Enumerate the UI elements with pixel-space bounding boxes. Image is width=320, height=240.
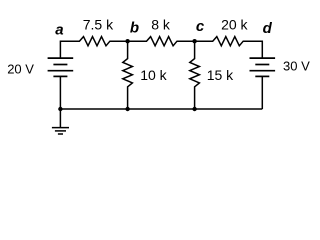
svg-text:b: b (130, 20, 139, 37)
svg-text:15 k: 15 k (207, 67, 234, 83)
svg-text:10 k: 10 k (140, 67, 167, 83)
svg-text:8 k: 8 k (151, 17, 171, 33)
svg-text:7.5 k: 7.5 k (83, 17, 114, 33)
svg-text:20 V: 20 V (7, 61, 34, 76)
svg-text:c: c (196, 18, 205, 35)
svg-text:d: d (263, 20, 273, 37)
svg-text:30 V: 30 V (283, 59, 310, 74)
svg-text:20 k: 20 k (221, 17, 248, 33)
svg-text:a: a (55, 22, 63, 39)
